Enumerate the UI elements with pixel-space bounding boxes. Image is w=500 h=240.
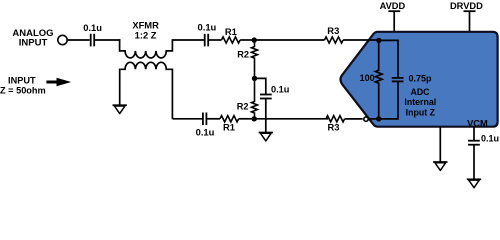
wire C4 to R1 bottom <box>206 118 220 120</box>
internal capacitor 0.75p <box>392 78 404 82</box>
node A junction <box>252 37 257 42</box>
wire R3 top to ADC <box>343 39 379 41</box>
svg-text:0.1u: 0.1u <box>196 127 215 138</box>
svg-text:R2: R2 <box>237 50 249 60</box>
node B junction <box>252 76 257 81</box>
wire node A to R3 top <box>255 39 325 41</box>
svg-text:0.1u: 0.1u <box>83 22 102 33</box>
svg-text:DRVDD: DRVDD <box>450 1 483 11</box>
capacitor C1 0.1u <box>91 34 95 47</box>
svg-text:0.75p: 0.75p <box>409 73 433 83</box>
transformer T1 primary winding <box>120 39 173 58</box>
wire R1 bottom to node C <box>239 118 255 120</box>
svg-text:0.1u: 0.1u <box>198 22 217 33</box>
capacitor C5 0.1u <box>468 141 480 145</box>
ADC block U1 <box>341 32 498 127</box>
svg-text:R2: R2 <box>237 101 249 111</box>
wire AVDD to ADC <box>393 11 395 31</box>
wire secondary left to ground <box>119 69 121 106</box>
internal top rail <box>379 40 398 77</box>
capacitor C2 0.1u <box>205 34 209 47</box>
wire ADC to ground G3 <box>439 126 441 162</box>
internal bottom rail <box>379 82 398 119</box>
svg-text:VCM: VCM <box>467 118 488 128</box>
svg-text:100: 100 <box>360 73 375 83</box>
svg-text:R3: R3 <box>327 25 339 36</box>
ground G3 <box>433 162 447 170</box>
capacitor C3 0.1u <box>260 95 272 99</box>
wire R1 to node A <box>240 39 254 41</box>
wire R3 bottom to pin circle <box>345 118 363 120</box>
svg-text:Z = 50ohm: Z = 50ohm <box>0 86 46 96</box>
resistor R2 bottom <box>252 78 258 118</box>
internal resistor 100 <box>375 40 382 119</box>
svg-text:0.1u: 0.1u <box>481 133 499 143</box>
wire C3 to ground <box>265 99 267 133</box>
wire C2 to R1 <box>208 39 221 41</box>
wire C1 to transformer <box>94 39 120 41</box>
wire VCM to C5 <box>473 126 475 140</box>
ground G4 <box>467 179 481 187</box>
svg-text:R1: R1 <box>225 26 237 37</box>
svg-text:R3: R3 <box>328 121 340 132</box>
svg-text:Input Z: Input Z <box>406 108 436 118</box>
wire transformer bottom to C4 <box>172 118 202 120</box>
svg-text:R1: R1 <box>223 121 235 132</box>
resistor R2 top <box>252 40 258 78</box>
ground G2 <box>259 133 273 141</box>
capacitor C4 0.1u <box>203 113 207 126</box>
ADC input pin circle <box>364 117 368 121</box>
resistor R1 bottom <box>220 116 239 122</box>
wire J1 to C1 <box>67 39 89 41</box>
node E junction bottom <box>376 116 381 121</box>
svg-text:Internal: Internal <box>404 97 436 107</box>
resistor R3 top <box>325 37 344 43</box>
resistor R1 top <box>222 37 241 43</box>
ground G1 <box>113 105 127 113</box>
wire C5 to ground G4 <box>473 145 475 180</box>
svg-text:ADC: ADC <box>410 87 430 97</box>
svg-text:1:2 Z: 1:2 Z <box>135 29 157 40</box>
node D junction top <box>376 38 381 43</box>
svg-text:AVDD: AVDD <box>380 1 406 11</box>
wire node C to R3 bottom <box>255 118 329 120</box>
input arrow <box>46 78 71 87</box>
input terminal J1 <box>58 35 67 44</box>
svg-text:INPUT: INPUT <box>19 37 48 48</box>
wire node B to C3 <box>255 78 266 94</box>
svg-text:INPUT: INPUT <box>8 75 36 85</box>
wire transformer to C2 <box>172 39 204 41</box>
DRVDD supply bar <box>464 10 476 12</box>
AVDD supply bar <box>388 10 400 12</box>
svg-text:0.1u: 0.1u <box>271 84 289 94</box>
wire DRVDD to ADC <box>469 11 471 31</box>
resistor R3 bottom <box>326 116 345 122</box>
wire pin circle to node D <box>368 118 378 120</box>
node C junction <box>252 116 257 121</box>
transformer T1 secondary winding <box>121 62 173 119</box>
